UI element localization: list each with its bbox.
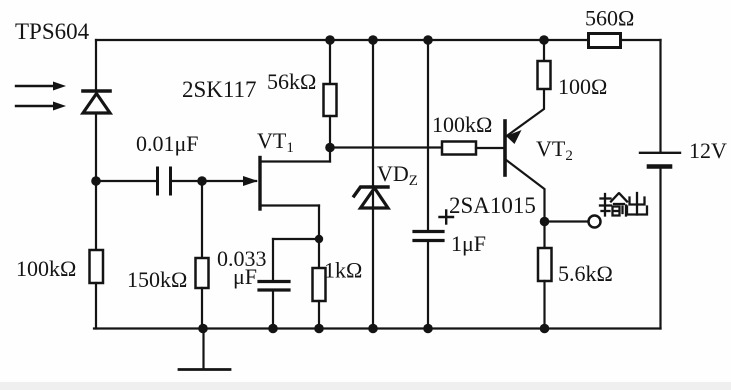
resistor 560 ohm <box>589 34 621 48</box>
node bottom rail zener <box>368 324 378 334</box>
svg-text:2SA1015: 2SA1015 <box>449 193 536 218</box>
node bottom rail 1k <box>314 324 324 334</box>
battery 12V <box>640 153 680 167</box>
label plus <box>440 211 454 224</box>
capacitor 0.033uF <box>259 239 289 329</box>
node bottom rail 0.033 <box>268 324 278 334</box>
svg-text:TPS604: TPS604 <box>15 19 90 44</box>
svg-text:100kΩ: 100kΩ <box>432 112 492 137</box>
svg-text:100Ω: 100Ω <box>558 74 607 99</box>
svg-text:0.01μF: 0.01μF <box>136 131 199 156</box>
node bottom rail 150k ground <box>198 324 208 334</box>
wire left vertical (photodiode to gate node) <box>95 113 97 181</box>
resistor 100k left <box>90 181 104 329</box>
svg-text:VT1: VT1 <box>257 128 294 156</box>
svg-text:100kΩ: 100kΩ <box>16 256 76 281</box>
transistor VT2 2SA1015 <box>505 89 545 220</box>
node top rail zener <box>368 35 378 45</box>
svg-text:VDZ: VDZ <box>377 161 418 189</box>
resistor 1k <box>313 268 326 329</box>
wire to output terminal <box>545 220 589 222</box>
svg-text:56kΩ: 56kΩ <box>267 69 316 94</box>
svg-text:1μF: 1μF <box>451 231 486 256</box>
wire 1uF branch lower <box>427 241 429 329</box>
wire source vertical and tee <box>273 206 319 269</box>
transistor VT1 2SK117 JFET <box>260 158 330 210</box>
node source tee <box>315 235 323 243</box>
svg-text:VT2: VT2 <box>536 136 573 164</box>
svg-text:μF: μF <box>233 264 257 289</box>
label output chinese <box>600 193 647 216</box>
wire right rail lower (battery to bottom rail) <box>659 168 661 329</box>
node top rail 1uF <box>423 35 433 45</box>
wire zener branch vertical <box>372 40 374 329</box>
resistor 56k <box>324 40 337 162</box>
light arrow lower <box>16 102 66 111</box>
node bottom rail 5.6k <box>540 324 550 334</box>
resistor 5.6k <box>538 222 552 329</box>
node top rail 56k <box>325 35 335 45</box>
photodiode TPS604 <box>83 91 110 113</box>
wire right rail upper (rail corner to battery) <box>659 40 661 152</box>
node drain junction <box>325 143 335 153</box>
node top rail 100ohm <box>539 35 549 45</box>
wire left vertical top (rail to photodiode) <box>95 40 97 89</box>
wire drain net to base resistor <box>330 146 442 148</box>
resistor 150k <box>196 181 209 329</box>
svg-text:1kΩ: 1kΩ <box>324 258 362 283</box>
resistor 100 ohm <box>538 40 551 89</box>
output terminal circle <box>589 216 601 228</box>
svg-text:560Ω: 560Ω <box>585 6 634 31</box>
bottom gray strip <box>0 382 731 390</box>
zener diode VDz <box>354 187 388 208</box>
capacitor 1uF polarized <box>414 232 443 241</box>
svg-text:2SK117: 2SK117 <box>182 77 257 102</box>
capacitor C1 0.01uF <box>158 168 171 194</box>
wire 1uF branch upper <box>427 40 429 231</box>
node bottom rail 1uF <box>423 324 433 334</box>
wire top supply rail <box>96 39 661 41</box>
ground <box>179 329 230 370</box>
wire gate segment left <box>96 180 155 182</box>
wire gate segment right with arrow into VT1 <box>173 176 258 186</box>
svg-text:12V: 12V <box>689 138 727 163</box>
svg-text:5.6kΩ: 5.6kΩ <box>558 261 613 286</box>
wire bottom rail <box>94 327 661 329</box>
resistor 100k base <box>442 142 504 155</box>
node gate-left junction <box>91 176 101 186</box>
node collector output junction <box>540 217 550 227</box>
light arrow upper <box>16 82 66 91</box>
node 150k tee on gate wire <box>197 176 207 186</box>
svg-text:150kΩ: 150kΩ <box>127 267 187 292</box>
